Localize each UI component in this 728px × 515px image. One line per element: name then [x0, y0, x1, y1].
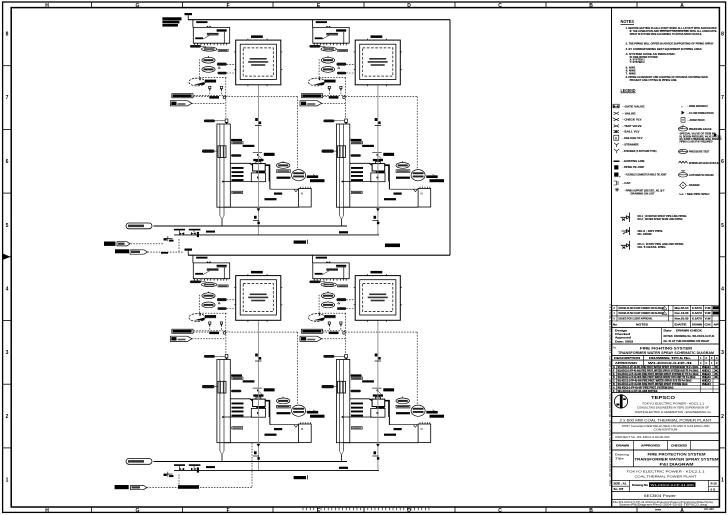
- svg-text:Lo. : SEE PIPE SPEC: Lo. : SEE PIPE SPEC: [680, 192, 710, 196]
- svg-text:R: R: [615, 136, 618, 140]
- drawing number row: [612, 480, 720, 491]
- svg-text:NOTES: NOTES: [621, 19, 635, 24]
- svg-text:P&I DIAGRAM: P&I DIAGRAM: [660, 462, 694, 466]
- svg-text:- JUNCTION: - JUNCTION: [688, 118, 705, 122]
- svg-text:- VALVE: - VALVE: [623, 111, 636, 115]
- plant name row: [612, 417, 720, 423]
- svg-text:Title: Title: [615, 457, 625, 461]
- svg-text:AP: AP: [714, 323, 720, 326]
- svg-text:SPRAY IN SYSTEM PIPE ACCORDING: SPRAY IN SYSTEM PIPE ACCORDING TO NOTES …: [630, 32, 702, 36]
- svg-text:8: 8: [721, 32, 724, 38]
- svg-text:- CAP: - CAP: [623, 181, 631, 185]
- svg-text:- EXISTING LINE: - EXISTING LINE: [623, 159, 645, 163]
- main title block: [612, 450, 720, 467]
- main feed drop pipe: [449, 20, 451, 256]
- svg-text:W1-KDC2-0-FP-41: W1-KDC2-0-FP-41: [648, 361, 693, 365]
- legend right icons: [678, 104, 717, 188]
- notes body: [626, 26, 717, 82]
- svg-text:- DESIGN: - DESIGN: [688, 183, 700, 187]
- svg-text:TEPSCO: TEPSCO: [651, 395, 676, 400]
- svg-text:F: F: [226, 508, 229, 514]
- top-half drain exit label: [104, 242, 164, 246]
- svg-text:D: D: [407, 508, 411, 514]
- svg-text:Dec.19.03: Dec.19.03: [675, 312, 690, 315]
- info block: [612, 328, 720, 345]
- svg-text:5: 5: [6, 223, 9, 229]
- svg-text:APPROVED: APPROVED: [615, 362, 637, 365]
- legend right column: [680, 104, 722, 196]
- svg-text:NOTES: DRAWING No. W1-KDC2-0-F: NOTES: DRAWING No. W1-KDC2-0-FP-41: [664, 334, 715, 338]
- svg-text:Sc. NT: Sc. NT: [614, 488, 625, 491]
- svg-text:2. THE PIPING WILL OFFER IN AD: 2. THE PIPING WILL OFFER IN ADVICE SUPPO…: [626, 42, 714, 46]
- svg-text:4: 4: [721, 287, 724, 293]
- module 2: [308, 20, 444, 235]
- svg-text:Drawing No: Drawing No: [632, 484, 649, 487]
- centerline arrow left margin: [3, 254, 11, 261]
- svg-text:C: C: [498, 508, 502, 514]
- svg-text:7: 7: [6, 95, 9, 101]
- svg-text:DRAWING TITLE No.: DRAWING TITLE No.: [649, 357, 692, 360]
- svg-text:Y.M: Y.M: [705, 317, 711, 320]
- dense reference table: [612, 365, 720, 392]
- svg-text:NOTES: NOTES: [636, 322, 648, 326]
- svg-text:No: No: [613, 323, 618, 326]
- svg-text:PROJECT No. W1-KDC2-0-00-00-00: PROJECT No. W1-KDC2-0-00-00-004: [616, 435, 670, 439]
- svg-text:- PIPING TIE JOINT: - PIPING TIE JOINT: [623, 165, 645, 169]
- svg-text:- AUTOMATIC DRAIN: - AUTOMATIC DRAIN: [688, 173, 714, 177]
- svg-text:R-10: R-10: [711, 481, 718, 485]
- bottom exit cluster: [115, 443, 252, 490]
- svg-text:5: 5: [721, 223, 724, 229]
- header + approved rows: [612, 356, 720, 366]
- detail rows: [621, 213, 630, 250]
- drawn/approved row: [612, 441, 720, 450]
- svg-text:7: 7: [721, 95, 724, 101]
- svg-text:6: 6: [6, 159, 9, 165]
- svg-text:A: A: [680, 3, 684, 9]
- svg-text:PIPING CLASS IF BY REQUIRED: PIPING CLASS IF BY REQUIRED: [680, 140, 713, 144]
- svg-text:CH: CH: [705, 323, 711, 326]
- svg-text:4: 4: [6, 287, 9, 293]
- svg-text:JOINT Consultant NEW DELHI (SE: JOINT Consultant NEW DELHI (SEA) LTD AND…: [622, 424, 710, 428]
- svg-text:NO. DRAIN: NO. DRAIN: [638, 232, 652, 236]
- svg-text:K.SATO: K.SATO: [692, 317, 702, 320]
- svg-text:DRAWN: DRAWN: [616, 443, 629, 447]
- svg-text:COAL THERMAL POWER PLANT: COAL THERMAL POWER PLANT: [635, 475, 697, 479]
- company block with logo: [612, 393, 720, 417]
- owner rows: [612, 467, 720, 481]
- svg-text:WHITE ELECTRIC & GENERATION -: WHITE ELECTRIC & GENERATION - ENGINEERIN…: [635, 410, 711, 414]
- svg-text:APPROVED: APPROVED: [641, 443, 660, 447]
- svg-text:B: B: [589, 508, 593, 514]
- svg-text:2 x 600 MW COAL THERMAL: 2 x 600 MW COAL THERMAL POWER PLANT: [620, 418, 712, 422]
- svg-text:6ECB04 Power: 6ECB04 Power: [644, 494, 677, 498]
- svg-text:TOKYO ELECTRIC POWER - KDC: TOKYO ELECTRIC POWER - KDC2.1.1: [627, 470, 705, 474]
- svg-text:DATE: DATE: [675, 323, 688, 326]
- svg-text:3: 3: [6, 350, 9, 356]
- svg-text:1: 1: [721, 478, 724, 484]
- svg-text:Checked: Checked: [615, 333, 631, 336]
- svg-text:- STRAINER: - STRAINER: [623, 143, 639, 147]
- svg-text:Y.M: Y.M: [705, 312, 711, 315]
- svg-text:K.SATO: K.SATO: [692, 312, 702, 315]
- svg-text:Y: SYSTEM 2: Y: SYSTEM 2: [630, 60, 645, 64]
- svg-text:1: 1: [6, 478, 9, 484]
- module1 entry flags: [170, 94, 193, 106]
- drawing title band: [612, 344, 720, 356]
- svg-text:Date: Date: [664, 330, 673, 333]
- RIGHT PANEL DIVIDER: [611, 8, 613, 507]
- svg-text:Y.M: Y.M: [705, 307, 711, 310]
- svg-text:3. BY CORRESPONDING BEST EQUIP: 3. BY CORRESPONDING BEST EQUIPMENT IN PI…: [626, 47, 702, 51]
- filename row: [612, 499, 720, 507]
- svg-text:C: C: [498, 3, 502, 9]
- svg-text:DRAWN: DRAWN: [692, 323, 702, 326]
- svg-text:REVISED AS PER CLIENT COMMENT: REVISED AS PER CLIENT COMMENT AND RE-ISS…: [619, 312, 665, 315]
- svg-text:Drawing: Drawing: [615, 453, 630, 457]
- svg-text:- SPRINKLER HEAD NOZZLE: - SPRINKLER HEAD NOZZLE: [688, 161, 719, 165]
- svg-text:Nov.20.03: Nov.20.03: [675, 317, 690, 320]
- pipe spec break label: [385, 244, 400, 248]
- svg-text:- RISE BRANCH: - RISE BRANCH: [688, 104, 708, 108]
- half piping: [126, 13, 450, 252]
- logo: [614, 395, 627, 408]
- svg-text:NO.2 ; WATER SPRAY MAIN LINE P: NO.2 ; WATER SPRAY MAIN LINE PIPING: [638, 217, 683, 221]
- svg-text:8: 8: [6, 32, 9, 38]
- bottom entry label: [115, 249, 184, 254]
- svg-text:LEGEND: LEGEND: [621, 88, 637, 93]
- project no row: [612, 433, 720, 441]
- svg-text:SystemP&IDiagram-Rev2-2004-03-: SystemP&IDiagram-Rev2-2004-03-05-TEPSCO.…: [619, 504, 708, 507]
- svg-text:- STRAINER (Y-PATTERN TYPE): - STRAINER (Y-PATTERN TYPE): [623, 149, 657, 153]
- placeholder groups: [613, 19, 722, 250]
- svg-text:0 /1: 0 /1: [711, 487, 716, 491]
- svg-text:- FLOW DIRECTION: - FLOW DIRECTION: [688, 111, 714, 115]
- svg-text:TRANSFORMER WATER SPRAY SCHEMA: TRANSFORMER WATER SPRAY SCHEMATIC DIAGRA…: [618, 351, 714, 355]
- svg-text:- TEST VALVE: - TEST VALVE: [623, 124, 642, 128]
- svg-text:Mar.05.04: Mar.05.04: [675, 307, 690, 310]
- svg-text:A: A: [680, 508, 684, 514]
- consultant row: [612, 423, 720, 433]
- svg-text:No. IS AT THE DRAWING ON RIGHT: No. IS AT THE DRAWING ON RIGHT: [664, 340, 710, 343]
- flag signal dashed wires: [192, 97, 346, 339]
- svg-text:FILE : W1-KDC2-0-FP-41-000.DWG: FILE : W1-KDC2-0-FP-41-000.DWG SAVE DATE…: [608, 303, 612, 486]
- svg-text:H: H: [45, 3, 49, 9]
- left margin ticks: [3, 65, 12, 67]
- svg-text:- BALL VLV: - BALL VLV: [623, 130, 640, 134]
- svg-text:2: 2: [6, 414, 9, 420]
- svg-text:K.SATO: K.SATO: [692, 307, 702, 310]
- svg-text:- PRESSURE TEST: - PRESSURE TEST: [688, 150, 710, 154]
- svg-text:Design: Design: [615, 329, 628, 332]
- legend left icons: [613, 104, 621, 192]
- svg-text:DRAWING ON LIST: DRAWING ON LIST: [631, 191, 655, 195]
- svg-text:AU-430: AU-430: [704, 507, 714, 511]
- svg-text:G: G: [136, 3, 140, 9]
- svg-text:G: G: [136, 508, 140, 514]
- svg-text:H: H: [45, 508, 49, 514]
- svg-text:REVISED AS PER CLIENT COMMENT: REVISED AS PER CLIENT COMMENT AND RE-ISS…: [619, 307, 665, 310]
- module 1: [189, 20, 325, 235]
- svg-text:DRAWN CHECK: DRAWN CHECK: [676, 330, 702, 333]
- svg-text:FIRE PROTECTION SYSTEM: FIRE PROTECTION SYSTEM: [648, 452, 706, 456]
- revision table: [612, 305, 720, 327]
- svg-text:- GATE VALVE: - GATE VALVE: [623, 105, 645, 109]
- svg-text:D: D: [407, 3, 411, 9]
- supply entry note: [162, 17, 181, 26]
- svg-text:W1-KDC2-0-FP-41-000: W1-KDC2-0-FP-41-000: [651, 483, 694, 487]
- svg-text:7. NW3: 7. NW3: [626, 71, 637, 75]
- svg-text:CHECKED: CHECKED: [671, 443, 687, 447]
- svg-text:6: 6: [721, 159, 724, 165]
- svg-text:6EC: 6EC: [702, 383, 712, 386]
- svg-text:Date: 2003: Date: 2003: [615, 340, 634, 343]
- power row: [612, 492, 720, 500]
- svg-text:File:W1-KDC2-0-FP-41-000-FireP: File:W1-KDC2-0-FP-41-000-FireProtectionS…: [613, 501, 714, 504]
- module2 entry flags: [300, 94, 323, 106]
- svg-text:- FLEXIBLE CONNECTOR WELD TIE: - FLEXIBLE CONNECTOR WELD TIE JOINT: [625, 173, 667, 177]
- svg-text:PROJECT LINE FITTING IN PIPING: PROJECT LINE FITTING IN PIPING LINE: [630, 78, 677, 82]
- svg-text:FIRE FIGHTING SYSTEM: FIRE FIGHTING SYSTEM: [640, 346, 692, 350]
- right margin ticks: [719, 65, 725, 67]
- bottom margin ticks: [91, 507, 93, 512]
- svg-text:NO. 5 DETAIL DWG: NO. 5 DETAIL DWG: [638, 245, 666, 249]
- svg-text:B: B: [589, 3, 593, 9]
- svg-text:ISSUED FOR CLIENT APPROVAL: ISSUED FOR CLIENT APPROVAL: [619, 317, 653, 320]
- svg-text:- PRESSURE GAUGE: - PRESSURE GAUGE: [688, 127, 712, 131]
- svg-text:2: 2: [721, 414, 724, 420]
- svg-text:- DELUGE VLV: - DELUGE VLV: [623, 136, 643, 140]
- svg-text:- CHECK VLV: - CHECK VLV: [623, 118, 642, 122]
- underline accent inside note 1: [660, 29, 688, 31]
- svg-text:CONSORTIUM: CONSORTIUM: [654, 428, 678, 432]
- legend left column: [623, 105, 667, 196]
- svg-text:F: F: [226, 3, 229, 9]
- svg-text:SIZE : A1: SIZE : A1: [614, 482, 628, 485]
- svg-text:Approved: Approved: [615, 337, 632, 340]
- svg-text:DESCRIPTION: DESCRIPTION: [614, 357, 640, 360]
- scale bar ticks bottom margin: [303, 508, 429, 510]
- svg-text:3: 3: [721, 350, 724, 356]
- svg-text:TRANSFORMER WATER SPRAY SYSTEM: TRANSFORMER WATER SPRAY SYSTEM: [635, 457, 719, 461]
- top margin ticks: [91, 2, 93, 8]
